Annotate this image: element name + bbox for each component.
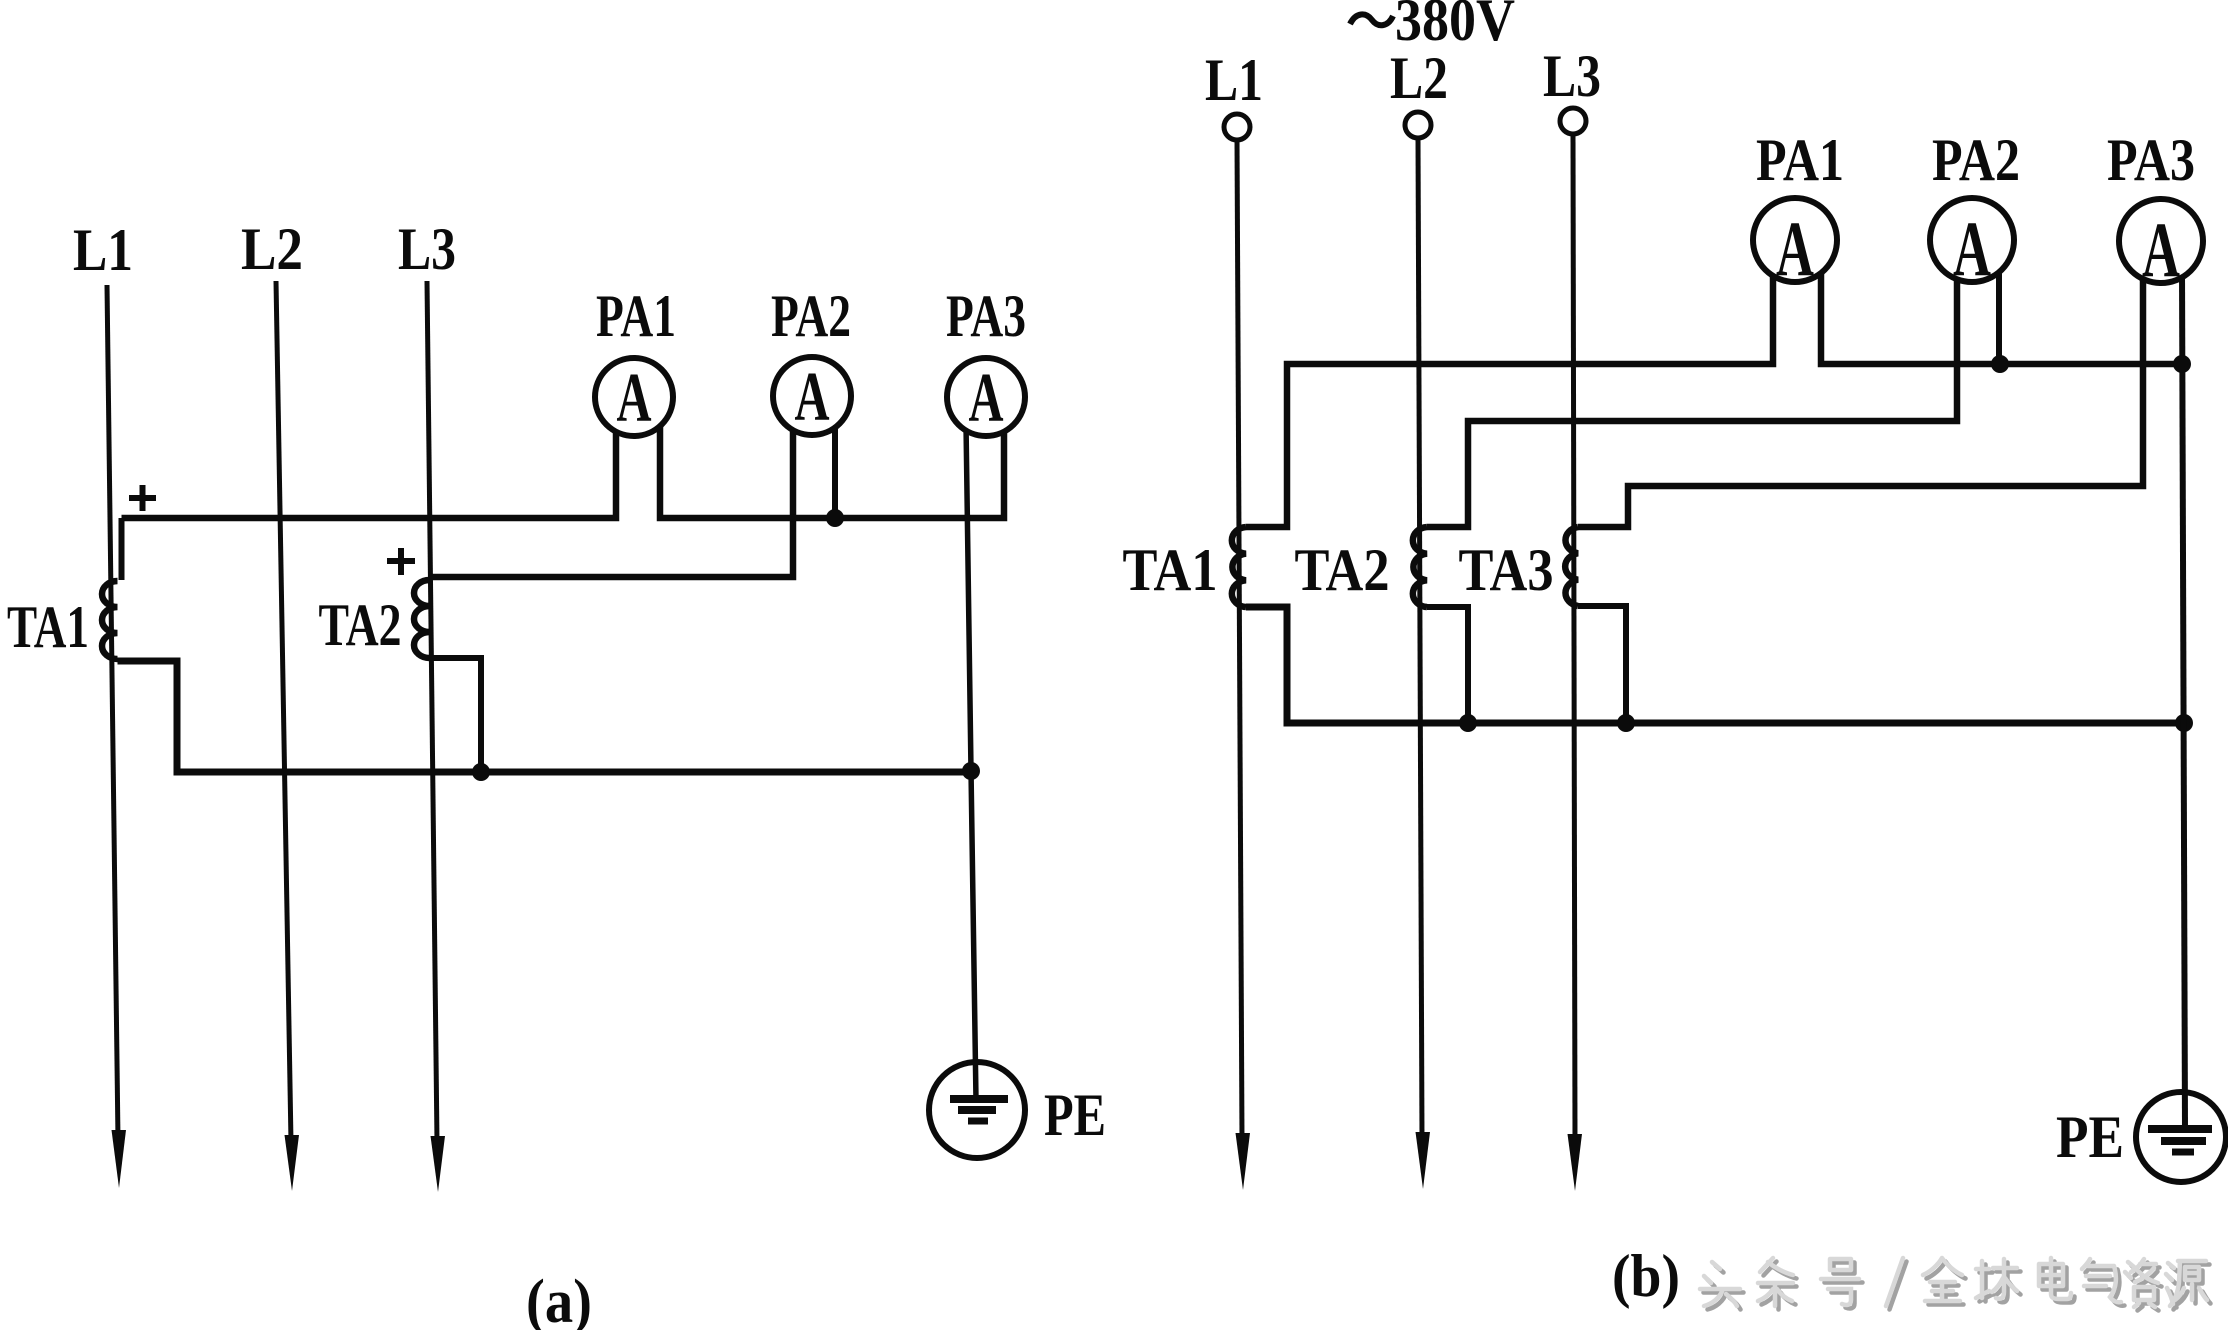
svg-text:A: A	[1953, 205, 1991, 292]
wire bus TA1 to PA1 left (a)	[122, 424, 617, 518]
svg-text:TA2: TA2	[1295, 537, 1390, 603]
earth electrode PE symbol (a)	[929, 1062, 1025, 1158]
junction dot PE drop on ground bus (a)	[962, 762, 980, 780]
wire feeder L2 (a)	[276, 281, 291, 1142]
wire feeder L2 (b)	[1418, 138, 1422, 1140]
wire feeder L3 (b)	[1573, 134, 1575, 1140]
CT coil TA1 (b)	[1232, 527, 1246, 607]
svg-text:(a): (a)	[526, 1268, 592, 1330]
svg-text:PA2: PA2	[1932, 127, 2020, 193]
svg-text:L3: L3	[1543, 43, 1601, 109]
svg-text:TA3: TA3	[1459, 537, 1554, 603]
svg-text:PA3: PA3	[946, 283, 1026, 349]
terminal L1 (b)	[1224, 114, 1250, 140]
wire bus PA1 right to PA3 right with leads (a)	[660, 424, 1004, 518]
junction dot PA2 right on bus (b)	[1991, 355, 2009, 373]
svg-text:PE: PE	[2056, 1104, 2124, 1170]
wire TA1 top lead (b)	[1246, 268, 1773, 527]
wire TA1 bottom lead (b)	[1246, 607, 2184, 723]
polarity mark + at TA2	[387, 548, 415, 575]
svg-text:TA1: TA1	[1123, 537, 1218, 603]
svg-text:(b): (b)	[1612, 1243, 1680, 1309]
CT coil TA3 (b)	[1565, 527, 1578, 606]
wire TA2 secondary bottom lead (a)	[430, 658, 482, 772]
arrow L1 (b)	[1236, 1133, 1251, 1190]
svg-text:TA1: TA1	[7, 594, 89, 660]
terminal L3 (b)	[1560, 108, 1586, 134]
junction dot TA2 bottom (b)	[1459, 714, 1477, 732]
svg-text:PA2: PA2	[771, 283, 851, 349]
arrow L2 (a)	[285, 1135, 300, 1191]
svg-text:L2: L2	[241, 216, 303, 282]
svg-text:PA1: PA1	[1756, 127, 1844, 193]
junction dot TA2 bottom on ground bus (a)	[472, 763, 490, 781]
wire PA3 left lead down to ground bus (a)	[966, 424, 976, 1100]
polarity mark + at TA1	[129, 485, 156, 511]
arrow L3 (a)	[431, 1136, 446, 1192]
svg-text:A: A	[1776, 205, 1814, 292]
junction dot PA2 right on bus (a)	[826, 509, 844, 527]
earth electrode PE symbol (b)	[2136, 1092, 2226, 1182]
junction dot common bus to PE (b)	[2175, 714, 2193, 732]
wire feeder L3 (a)	[427, 281, 437, 1142]
svg-text:A: A	[2142, 206, 2180, 293]
svg-text:L1: L1	[73, 217, 133, 283]
svg-text:L1: L1	[1205, 47, 1263, 113]
junction dot TA3 bottom (b)	[1617, 714, 1635, 732]
wire TA2 bottom lead (b)	[1427, 607, 1468, 723]
wire TA3 bottom lead (b)	[1578, 606, 1626, 723]
svg-text:L2: L2	[1390, 45, 1448, 111]
svg-text:PA3: PA3	[2107, 127, 2195, 193]
svg-text:PA1: PA1	[596, 283, 676, 349]
wire PA2 right lead (b)	[1996, 268, 2002, 364]
wire TA2 top lead (b)	[1427, 268, 1957, 527]
arrow L2 (b)	[1416, 1132, 1431, 1189]
label ~380V	[1350, 14, 1393, 25]
arrow L3 (b)	[1568, 1134, 1583, 1191]
svg-text:TA2: TA2	[319, 592, 402, 658]
wire bus PA1 right to PA3 right (b)	[1821, 268, 2182, 364]
CT coil TA2 (a)	[414, 580, 430, 658]
wire feeder L1 (b)	[1237, 140, 1242, 1140]
svg-text:A: A	[795, 359, 830, 436]
wire TA3 top lead (b)	[1578, 268, 2143, 527]
svg-text:A: A	[969, 360, 1004, 437]
svg-text:A: A	[617, 360, 652, 437]
wire feeder L1 (a)	[107, 285, 118, 1140]
terminal L2 (b)	[1405, 112, 1431, 138]
junction dot PA3 right on bus (b)	[2173, 355, 2191, 373]
CT coil TA1 (a)	[102, 581, 118, 659]
wire PA2 right lead (a)	[832, 424, 838, 518]
wire TA1 secondary top lead (a)	[119, 518, 125, 580]
wire PA3 right lead down to PE (b)	[2182, 270, 2185, 1129]
wire TA1 secondary bottom lead (a)	[118, 661, 972, 772]
arrow L1 (a)	[112, 1130, 127, 1188]
CT coil TA2 (b)	[1413, 527, 1427, 607]
svg-text:PE: PE	[1044, 1082, 1106, 1148]
watermark 头条号 / 全球电气资源	[1700, 1258, 2211, 1311]
svg-text:L3: L3	[398, 216, 456, 282]
wire TA2 top lead to PA2 left (a)	[433, 424, 793, 580]
